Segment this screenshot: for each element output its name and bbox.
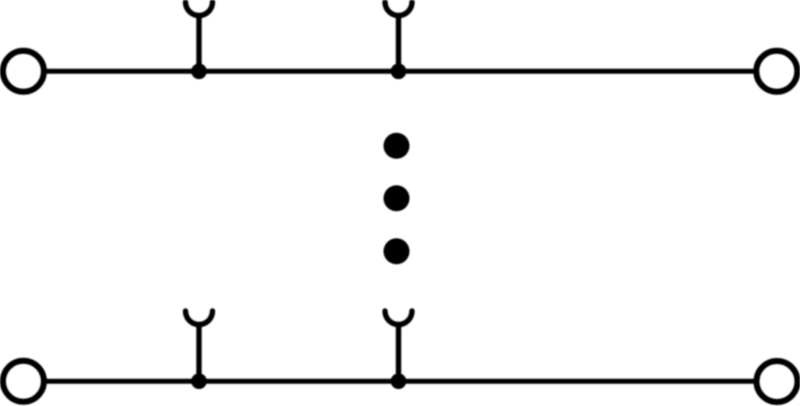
clamp cup bottom-right bbox=[385, 311, 412, 325]
wire stub bottom-right bbox=[396, 324, 401, 381]
clamp cup top-left bbox=[186, 2, 213, 16]
junction dot top-right bbox=[391, 64, 407, 80]
clamp cup bottom-left bbox=[186, 311, 213, 325]
wire stub bottom-left bbox=[196, 324, 201, 381]
junction dot bottom-left bbox=[191, 373, 207, 389]
wire stub top-left bbox=[196, 14, 201, 71]
terminal circle top-left bbox=[3, 51, 44, 92]
terminal circle bottom-left bbox=[3, 361, 44, 402]
clamp cup top-right bbox=[385, 2, 412, 16]
ellipsis dot 1 bbox=[384, 133, 410, 159]
junction dot bottom-right bbox=[391, 373, 407, 389]
terminal circle bottom-right bbox=[757, 361, 798, 402]
terminal circle top-right bbox=[756, 51, 797, 92]
wire stub top-right bbox=[396, 14, 401, 71]
wire bottom bus bbox=[45, 379, 755, 384]
ellipsis dot 3 bbox=[384, 238, 410, 264]
junction dot top-left bbox=[191, 64, 207, 80]
wire top bus bbox=[45, 69, 755, 74]
ellipsis dot 2 bbox=[384, 185, 410, 211]
